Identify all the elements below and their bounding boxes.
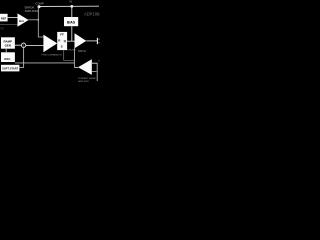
wire COMP vertical to PWM comparator [38,7,43,37]
OSC box [1,52,15,62]
wire FB input [0,24,18,26]
svg-text:GEN: GEN [5,44,11,48]
BIAS box [64,17,78,26]
wire BIAS to driver input [71,26,73,41]
svg-text:FB: FB [0,28,3,31]
svg-text:REF: REF [1,16,7,20]
svg-text:SOFT START: SOFT START [2,67,19,71]
node B (IN) [70,5,73,8]
svg-text:FF: FF [60,33,64,37]
wire CS pin vertical [96,63,98,81]
svg-text:ADP1864: ADP1864 [84,12,100,17]
svg-text:IN: IN [69,0,72,4]
wire driver down to CS amp [73,48,75,68]
wire driver output to DRV pin [86,40,97,42]
wire CS- input [92,70,97,72]
wire Gm output to COMP vertical [28,19,39,21]
svg-text:AMPLIFIER: AMPLIFIER [78,80,89,83]
svg-text:CS: CS [98,61,100,63]
REF box [0,14,8,22]
svg-text:CURRENT SENSE: CURRENT SENSE [78,78,96,80]
svg-text:AMPLIFIER: AMPLIFIER [25,9,39,13]
wire summer to PWM comparator [26,44,44,46]
wire SOFT START to CS net [19,66,24,68]
svg-text:DRVH: DRVH [78,49,86,53]
wire CS+ input [92,62,97,64]
flip-flop FF [57,32,67,50]
wire CS long horizontal [15,62,75,64]
wire FF S to CS net [64,50,75,60]
pin tick marks [98,38,100,40]
wire node B to BIAS [71,6,73,17]
wire summer down to CS net [23,48,25,68]
op-amp PWM comparator [43,35,57,53]
node A (COMP) [38,5,41,8]
op-amp Gm error amplifier [18,13,29,26]
wire RAMP GEN to summer [15,44,21,46]
pin DRV bar [96,38,98,44]
SOFT START box [1,65,19,72]
wire CS amp output [74,66,78,68]
node Gm out junction [38,19,40,21]
op-amp current sense amplifier [78,59,92,75]
svg-text:COMP: COMP [35,2,44,6]
svg-text:S: S [61,45,63,49]
svg-text:BIAS: BIAS [67,20,76,24]
svg-text:Gm: Gm [19,19,24,23]
wire REF to error amp [8,17,18,19]
wire FF Q to driver [67,40,74,42]
summing node [21,43,25,47]
svg-text:PWM COMPARATOR: PWM COMPARATOR [42,54,63,57]
driver amplifier [75,33,87,48]
wire top rail COMP/IN [39,5,99,7]
wire OSC to RAMP GEN [5,49,7,53]
svg-text:OSC: OSC [4,57,11,61]
svg-text:Σ: Σ [23,44,25,48]
RAMP GEN box [1,37,15,48]
